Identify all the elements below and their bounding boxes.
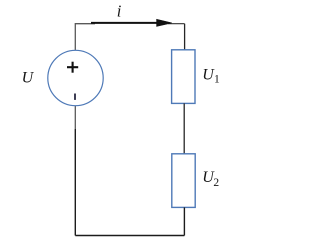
voltage source U circle xyxy=(48,50,103,105)
wire right vertical (top rail to U1) xyxy=(184,24,186,50)
svg-text:i: i xyxy=(117,1,122,20)
svg-text:2: 2 xyxy=(213,177,219,189)
label U (source voltage) xyxy=(22,70,35,87)
wire U2 bottom to bottom rail xyxy=(183,207,185,235)
svg-text:U: U xyxy=(22,70,35,87)
current arrow i xyxy=(91,19,172,26)
plus sign inside source xyxy=(67,62,78,73)
label U1 xyxy=(202,66,220,85)
minus sign inside source (vertical tick) xyxy=(74,94,76,100)
wire top-left corner (source top to top rail) xyxy=(75,24,95,51)
svg-text:1: 1 xyxy=(214,73,220,85)
wire left vertical below source (gray stub) xyxy=(74,106,76,129)
wire bottom rail xyxy=(75,235,184,237)
wire left vertical (down to bottom rail) xyxy=(74,129,76,236)
U2 box (resistor U2) xyxy=(172,154,195,208)
voltage source U1 box (resistor U1) xyxy=(172,50,195,104)
wire between U1 and U2 xyxy=(183,103,185,153)
label i xyxy=(117,1,122,20)
wire top rail thin continuation to right corner xyxy=(168,23,185,25)
label U2 xyxy=(202,169,219,189)
